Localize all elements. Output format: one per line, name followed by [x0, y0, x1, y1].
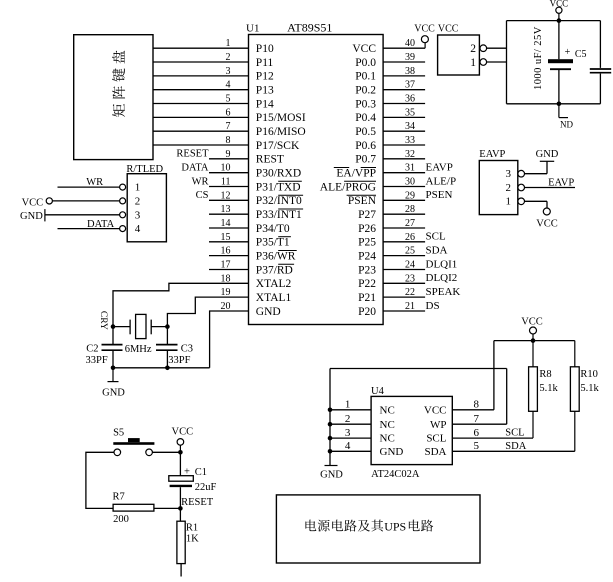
svg-text:DATA: DATA — [181, 163, 209, 174]
svg-text:1: 1 — [470, 57, 476, 69]
pin number 39 — [405, 52, 415, 63]
label 矩阵键盘 (rotated) — [112, 51, 125, 117]
VCC power port at pin 40 — [414, 24, 435, 49]
connector R/TLED title — [126, 164, 163, 175]
wire keyboard to U1 pin 7 — [153, 130, 249, 132]
pin number 36 — [405, 94, 415, 105]
crystal CRY body — [136, 314, 146, 338]
node U4 pin 4 ground rail — [328, 449, 333, 454]
pin number 35 — [405, 107, 415, 118]
wire keyboard to U1 pin 3 — [153, 75, 249, 77]
svg-text:UPS: UPS — [384, 520, 406, 534]
pin number 20 — [221, 301, 231, 312]
net label DLQI1 — [426, 258, 458, 270]
pin number 40 — [405, 38, 415, 49]
svg-text:2: 2 — [226, 52, 231, 63]
svg-text:3: 3 — [506, 168, 512, 180]
svg-text:EAVP: EAVP — [548, 177, 574, 188]
capacitor C3 label — [181, 343, 193, 354]
wire keyboard to U1 pin 2 — [153, 61, 249, 63]
wire U4 ground rail — [329, 369, 331, 466]
wire connector pin 2 — [487, 47, 507, 49]
ground GND port (left) — [20, 209, 45, 222]
capacitor C2 value 33PF — [86, 355, 108, 366]
wire RESET node down — [179, 508, 181, 521]
capacitor C1 label — [195, 467, 207, 478]
wire stub U1 pin 33 — [383, 144, 425, 146]
pin number 6 — [226, 107, 231, 118]
pin number 4 — [226, 80, 231, 91]
U4 right pin name SCL — [426, 433, 446, 445]
svg-text:1: 1 — [226, 38, 231, 49]
U1 pin name GND (pin 20) — [256, 306, 281, 318]
resistor R1 value 1K — [186, 534, 199, 545]
U4 pin number 4 — [345, 440, 351, 452]
wire stub U1 pin 24 — [383, 269, 425, 271]
svg-text:NC: NC — [380, 433, 395, 445]
U1 pin name P10 (pin 1) — [256, 43, 274, 55]
wire stub U1 pin 16 — [209, 255, 249, 257]
title box 电源电路及其UPS电路 — [276, 495, 480, 563]
U4 pin name NC (pin 3) — [380, 433, 395, 445]
svg-text:P32/INT0: P32/INT0 — [256, 195, 302, 207]
U1 right pin name P24 — [358, 250, 376, 262]
svg-text:R8: R8 — [539, 369, 551, 380]
svg-text:VCC: VCC — [424, 404, 447, 416]
pin number 30 — [405, 177, 415, 188]
svg-text:DLQI1: DLQI1 — [426, 258, 458, 270]
eeprom U4 body — [371, 396, 452, 464]
connector VCC (2-pin) title — [438, 24, 459, 35]
wire EAVP pin 2 — [525, 187, 575, 189]
wire stub U1 pin 32 — [383, 158, 425, 160]
net label DLQI2 — [426, 272, 458, 284]
pin number 19 — [221, 287, 231, 298]
wire stub U1 pin 38 — [383, 75, 425, 77]
svg-text:WP: WP — [430, 419, 447, 431]
capacitor C3 value 33PF — [168, 355, 190, 366]
svg-text:SDA: SDA — [424, 446, 446, 458]
svg-text:P0.7: P0.7 — [355, 154, 376, 166]
U1 right pin name P0.0 — [355, 57, 376, 69]
node C2 ground — [111, 366, 116, 371]
svg-text:3: 3 — [135, 209, 141, 221]
connector pin 2 circle — [480, 45, 487, 52]
U1 right pin name P25 — [358, 237, 376, 249]
wire EAVP pin 1 to VCC — [525, 201, 547, 208]
op U1 AT89S51 body — [249, 35, 384, 325]
capacitor C6 (right) — [590, 21, 611, 104]
wire stub U1 pin 30 — [383, 186, 425, 188]
R/TLED pin 2 circle — [120, 198, 126, 204]
U1 right pin name P22 — [358, 278, 376, 290]
capacitor C3 — [156, 345, 178, 368]
U4 right pin name SDA — [424, 446, 446, 458]
svg-text:8: 8 — [226, 135, 231, 146]
wire U4 pin 3 — [330, 437, 371, 439]
wire crystal right rail — [166, 327, 168, 344]
wire stub U1 pin 10 — [209, 172, 249, 174]
svg-text:VCC: VCC — [22, 197, 44, 208]
U1 pin name XTAL2 (pin 18) — [256, 278, 292, 290]
wire keyboard to U1 pin 8 — [153, 144, 249, 146]
crystal value 6MHz — [125, 344, 152, 355]
svg-text:VCC: VCC — [438, 24, 459, 35]
net label ALE/P — [426, 175, 457, 187]
wire stub U1 pin 13 — [209, 213, 249, 215]
wire GND to R/TLED pin 3 — [45, 214, 120, 216]
pin number 32 — [405, 149, 415, 160]
U4 pin number 1 — [345, 399, 351, 411]
resistor R10 label — [580, 369, 598, 380]
ground GND port (U4) — [320, 466, 343, 481]
svg-text:C3: C3 — [181, 343, 193, 354]
pin number 29 — [405, 190, 415, 201]
pin number 27 — [405, 218, 415, 229]
svg-text:NC: NC — [380, 404, 395, 416]
pin number 23 — [405, 273, 415, 284]
svg-text:GND: GND — [256, 306, 281, 318]
U1 pin name P30/RXD (pin 10) — [256, 168, 301, 180]
R/TLED pin 4 circle — [120, 226, 126, 232]
net label CS pin 12 — [196, 190, 209, 201]
pin number 37 — [405, 80, 415, 91]
svg-text:R7: R7 — [113, 491, 125, 502]
svg-text:2: 2 — [506, 182, 512, 194]
U4 pin name NC (pin 1) — [380, 404, 395, 416]
svg-text:5: 5 — [474, 440, 480, 452]
wire stub U1 pin 40 — [383, 47, 425, 49]
svg-text:P37/RD: P37/RD — [256, 264, 293, 276]
wire keyboard to U1 pin 1 — [153, 47, 249, 49]
node VCC/C1 junction — [178, 450, 183, 455]
crystal CRY leads — [113, 326, 167, 328]
svg-text:GND: GND — [380, 446, 404, 458]
pin number 9 — [226, 149, 231, 160]
svg-text:1: 1 — [345, 399, 351, 411]
crystal CRY electrodes — [130, 320, 151, 335]
capacitor C5 — [548, 21, 573, 104]
svg-text:VCC: VCC — [521, 316, 543, 327]
capacitor C5 label + — [565, 47, 571, 58]
capacitor C1 label + — [184, 466, 190, 477]
resistor R10 — [570, 341, 579, 452]
U1 designator — [246, 23, 259, 35]
svg-text:P13: P13 — [256, 85, 274, 97]
EAVP pin number 2 — [506, 182, 512, 194]
svg-text:C2: C2 — [86, 343, 98, 354]
svg-text:REST: REST — [256, 154, 284, 166]
pin number 2 — [226, 52, 231, 63]
svg-text:P12: P12 — [256, 71, 274, 83]
wire U1 pin 20 GND down — [210, 311, 249, 368]
svg-text:1K: 1K — [186, 534, 199, 545]
svg-text:XTAL1: XTAL1 — [256, 292, 292, 304]
svg-text:P24: P24 — [358, 250, 376, 262]
wire stub U1 pin 34 — [383, 130, 425, 132]
svg-text:DS: DS — [426, 300, 440, 312]
resistor R1 — [177, 521, 185, 563]
U1 pin name REST (pin 9) — [256, 154, 284, 166]
svg-text:P22: P22 — [358, 278, 376, 290]
connector pin number 2 — [470, 43, 476, 55]
wire keyboard to U1 pin 4 — [153, 89, 249, 91]
U1 pin name P14 (pin 5) — [256, 98, 274, 110]
svg-text:P20: P20 — [358, 306, 376, 318]
svg-text:CRY: CRY — [98, 311, 108, 330]
pin number 26 — [405, 232, 415, 243]
pin number 12 — [221, 190, 231, 201]
svg-text:200: 200 — [113, 514, 129, 525]
resistor R7 label — [113, 491, 125, 502]
U1 pin name XTAL1 (pin 19) — [256, 292, 292, 304]
svg-text:7: 7 — [474, 413, 480, 425]
svg-text:P23: P23 — [358, 264, 376, 276]
svg-text:P10: P10 — [256, 43, 274, 55]
R/TLED pin 3 circle — [120, 212, 126, 218]
pin number 13 — [221, 204, 231, 215]
svg-text:1: 1 — [135, 182, 141, 194]
svg-text:5.1k: 5.1k — [539, 383, 558, 394]
svg-text:ND: ND — [560, 119, 573, 129]
wire stub U1 pin 26 — [383, 241, 425, 243]
wire keyboard to U1 pin 5 — [153, 103, 249, 105]
EAVP pin 1 circle — [518, 198, 525, 205]
switch S5 left contact — [114, 449, 121, 456]
wire stub U1 pin 22 — [383, 296, 425, 298]
wire stub U1 pin 36 — [383, 103, 425, 105]
wire keyboard to U1 pin 6 — [153, 116, 249, 118]
capacitor C2 label — [86, 343, 98, 354]
resistor R8 label — [539, 369, 551, 380]
svg-text:ALE/PROG: ALE/PROG — [320, 181, 376, 193]
wire stub U1 pin 14 — [209, 227, 249, 229]
pin number 8 — [226, 135, 231, 146]
svg-text:P0.3: P0.3 — [355, 98, 376, 110]
resistor R8 — [529, 341, 538, 439]
R/TLED pin 1 circle — [120, 184, 126, 190]
wire VCC stem — [179, 445, 181, 452]
svg-text:33PF: 33PF — [86, 355, 108, 366]
pin number 16 — [221, 246, 231, 257]
pin number 34 — [405, 121, 415, 132]
pin number 14 — [221, 218, 231, 229]
svg-text:2: 2 — [470, 43, 476, 55]
U1 pin name P36/WR (pin 16) — [256, 250, 297, 262]
svg-text:EA/VPP: EA/VPP — [336, 168, 376, 180]
connector pin number 1 — [470, 57, 476, 69]
net label SDA — [426, 244, 448, 256]
capacitor C1 — [169, 452, 194, 508]
connector EAVP body — [479, 161, 518, 215]
wire connector pin 1 — [487, 61, 507, 63]
pin number 18 — [221, 273, 231, 284]
svg-text:6MHz: 6MHz — [125, 344, 152, 355]
U1 pin name P31/TXD (pin 11) — [256, 181, 302, 193]
connector VCC (2-pin) body — [438, 35, 480, 75]
svg-text:8: 8 — [474, 399, 480, 411]
net label RESET — [181, 497, 214, 508]
eeprom U4 designator — [371, 386, 385, 397]
svg-text:5.1k: 5.1k — [580, 383, 599, 394]
net label DS — [426, 300, 440, 312]
U1 pin name P12 (pin 3) — [256, 71, 274, 83]
pin number 25 — [405, 246, 415, 257]
node U4 pin 3 ground rail — [328, 436, 333, 441]
svg-text:SCL: SCL — [505, 428, 524, 439]
svg-text:7: 7 — [226, 121, 231, 132]
svg-text:AT89S51: AT89S51 — [287, 21, 332, 35]
pin number 38 — [405, 66, 415, 77]
node GND junction bottom — [557, 102, 562, 107]
eeprom U4 part name AT24C02A — [371, 469, 420, 480]
svg-text:P0.6: P0.6 — [355, 140, 376, 152]
wire stub U1 pin 12 — [209, 199, 249, 201]
svg-text:P25: P25 — [358, 237, 376, 249]
wire U1 pin 18 XTAL2 to crystal — [113, 283, 249, 326]
svg-text:C1: C1 — [195, 467, 207, 478]
pin number 3 — [226, 66, 231, 77]
svg-text:C5: C5 — [575, 49, 587, 60]
svg-text:P16/MISO: P16/MISO — [256, 126, 306, 138]
svg-text:RESET: RESET — [176, 149, 209, 160]
net label RESET pin 9 — [176, 149, 209, 160]
connector EAVP title — [479, 149, 505, 160]
svg-text:S5: S5 — [113, 428, 124, 439]
wire R7 to RESET node — [154, 507, 181, 509]
U1 pin name P13 (pin 4) — [256, 85, 274, 97]
net label PSEN — [426, 189, 453, 201]
svg-text:P36/WR: P36/WR — [256, 250, 296, 262]
svg-text:P33/INT1: P33/INT1 — [256, 209, 302, 221]
svg-text:CS: CS — [196, 190, 209, 201]
U1 pin name P34/T0 (pin 14) — [256, 223, 290, 235]
designator CRY (rotated) — [98, 311, 108, 330]
svg-text:GND: GND — [536, 149, 559, 160]
svg-text:P21: P21 — [358, 292, 376, 304]
svg-text:P26: P26 — [358, 223, 376, 235]
wire stub U1 pin 21 — [383, 310, 425, 312]
svg-text:VCC: VCC — [550, 0, 569, 9]
EAVP pin 2 circle — [518, 184, 525, 191]
U4 pin number 7 — [474, 413, 480, 425]
VCC power port (EAVP) — [536, 208, 558, 230]
ground GND below C5 — [559, 104, 574, 130]
svg-text:6: 6 — [226, 107, 231, 118]
ground GND (crystal) — [102, 368, 125, 399]
svg-text:P0.0: P0.0 — [355, 57, 376, 69]
resistor R8 value 5.1k — [539, 383, 558, 394]
svg-text:5: 5 — [226, 94, 231, 105]
wire stub U1 pin 11 — [209, 186, 249, 188]
svg-text:SPEAK: SPEAK — [426, 286, 461, 298]
wire loop left — [506, 21, 508, 104]
svg-text:P34/T0: P34/T0 — [256, 223, 290, 235]
wire U4 pin 8 VCC — [452, 341, 494, 410]
svg-text:SDA: SDA — [505, 441, 526, 452]
resistor R7 — [113, 504, 154, 511]
capacitor C2 — [102, 345, 123, 368]
wire loop bottom — [507, 103, 601, 105]
svg-text:P30/RXD: P30/RXD — [256, 168, 301, 180]
svg-text:P0.1: P0.1 — [355, 71, 376, 83]
svg-text:22uF: 22uF — [195, 482, 217, 493]
svg-text:4: 4 — [226, 80, 231, 91]
U1 right pin name P0.1 — [355, 71, 376, 83]
pin number 7 — [226, 121, 231, 132]
svg-text:ALE/P: ALE/P — [426, 175, 457, 187]
svg-text:2: 2 — [345, 413, 351, 425]
U1 right pin name P23 — [358, 264, 376, 276]
U1 right pin name P27 — [358, 209, 376, 221]
EAVP pin 3 circle — [518, 170, 525, 177]
pin number 24 — [405, 260, 415, 271]
svg-text:P15/MOSI: P15/MOSI — [256, 112, 306, 124]
svg-text:1: 1 — [506, 196, 512, 208]
EAVP pin number 1 — [506, 196, 512, 208]
wire U4 pin 4 — [330, 450, 371, 452]
wire ground rail — [113, 367, 210, 369]
svg-text:P14: P14 — [256, 98, 274, 110]
wire stub U1 pin 25 — [383, 255, 425, 257]
net label SDA (U4) — [505, 441, 526, 452]
wire VCC rail top — [494, 340, 575, 342]
net label EAVP — [426, 162, 453, 174]
wire U4 pin 2 — [330, 423, 371, 425]
U1 right pin name P21 — [358, 292, 376, 304]
wire S5 to VCC node — [152, 451, 180, 453]
pin number 21 — [405, 301, 415, 312]
wire EAVP pin 3 to GND — [525, 161, 547, 173]
wire U1 pin 19 XTAL1 to crystal — [167, 297, 248, 327]
pin number 22 — [405, 287, 415, 298]
U1 right pin name EA/VPP — [334, 168, 376, 180]
capacitor C1 value 22uF — [195, 482, 217, 493]
net label SCL — [426, 231, 446, 243]
net label DATA (left) — [87, 219, 115, 230]
U4 pin number 2 — [345, 413, 351, 425]
wire DATA to R/TLED pin 4 — [58, 228, 120, 230]
net label EAVP — [548, 177, 574, 188]
VCC power port (S5) — [172, 427, 194, 446]
net label WR (left) — [86, 177, 103, 188]
node crystal left — [111, 324, 116, 329]
svg-text:R1: R1 — [186, 523, 198, 534]
wire stub U1 pin 9 — [209, 158, 249, 160]
wire S5 left loop — [86, 452, 114, 508]
svg-text:P0.4: P0.4 — [355, 112, 376, 124]
U4 right pin name VCC — [424, 404, 447, 416]
pin number 17 — [221, 260, 231, 271]
wire U4 pin 5 SDA — [452, 450, 575, 452]
wire VCC to R/TLED pin 2 — [52, 200, 119, 202]
svg-text:P35/T1: P35/T1 — [256, 237, 290, 249]
connector R/TLED body — [127, 174, 166, 242]
U4 pin name NC (pin 2) — [380, 419, 395, 431]
wire crystal left rail — [112, 327, 114, 344]
net label SPEAK — [426, 286, 461, 298]
U4 pin number 5 — [474, 440, 480, 452]
resistor R7 value 200 — [113, 514, 129, 525]
svg-text:6: 6 — [474, 427, 480, 439]
svg-text:P27: P27 — [358, 209, 376, 221]
wire U4 pin 1 — [330, 409, 371, 411]
resistor R10 value 5.1k — [580, 383, 599, 394]
U1 pin name P17/SCK (pin 8) — [256, 140, 300, 152]
title text 电源电路及其UPS电路 — [305, 520, 433, 534]
svg-text:PSEN: PSEN — [426, 189, 453, 201]
U4 pin number 8 — [474, 399, 480, 411]
